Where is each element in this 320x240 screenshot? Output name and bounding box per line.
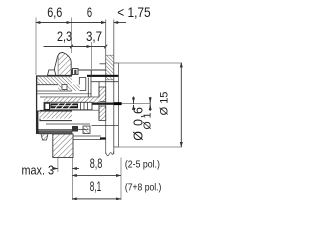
- tick at 105.7: [104, 45, 107, 49]
- ext line x36: [35, 18, 37, 76]
- svg-text:Ø 15: Ø 15: [159, 92, 171, 116]
- ext line x91.5: [91, 42, 93, 69]
- arrow 3,7 right: [85, 46, 92, 48]
- seal black bar: [87, 75, 118, 77]
- cavity top line: [40, 96, 100, 98]
- shell top thick edge: [36, 75, 72, 77]
- svg-text:(2-5 pol.): (2-5 pol.): [125, 160, 160, 171]
- clip blob: [74, 70, 76, 74]
- rear insulator block top: [99, 87, 106, 102]
- front foot: [41, 134, 48, 140]
- panel hatch upper: [106, 55, 114, 74]
- panel right line: [113, 20, 115, 155]
- ext x72.5: [71, 158, 73, 200]
- shell bottom wall bottom edge: [40, 119, 72, 121]
- dim line 1,75 outside arrows: [97, 22, 106, 24]
- centerline: [122, 103, 151, 105]
- dim line dia15: [180, 63, 182, 147]
- front face: [36, 76, 38, 135]
- dim line 2,3 / 3,7: [44, 46, 107, 48]
- solder pin: [92, 103, 122, 105]
- contact rear dividers: [80, 102, 82, 110]
- contact front pocket: [45, 103, 50, 109]
- panel left line: [105, 20, 107, 155]
- panel hatch top edge: [106, 54, 114, 56]
- dia 0,6 dim line: [133, 97, 135, 105]
- tick at 71.5: [70, 45, 73, 49]
- dim line 6,6: [36, 22, 72, 24]
- hump left facet: [54, 57, 59, 75]
- mid hatch band: [72, 85, 80, 91]
- dim line 8,1: [72, 198, 121, 200]
- contact slot black: [51, 103, 79, 108]
- ext line top: [119, 62, 183, 64]
- slot white slashes: [55, 103, 60, 108]
- front rim dark band: [39, 131, 73, 134]
- svg-text:max. 3: max. 3: [22, 163, 55, 178]
- bottom rim lines: [73, 135, 101, 137]
- ext x121: [120, 158, 122, 201]
- inner wall line y91: [37, 90, 73, 92]
- contact slot slit: [52, 104, 78, 107]
- svg-text:6: 6: [87, 5, 92, 20]
- svg-text:6,6: 6,6: [47, 5, 62, 20]
- insulator step: [79, 78, 86, 91]
- svg-text:8,8: 8,8: [90, 156, 103, 171]
- shell behind hump hatch: [58, 85, 72, 91]
- panel hole top edge: [106, 79, 114, 81]
- shell bottom wall thick top edge: [37, 110, 72, 112]
- rear shell top edge: [72, 70, 106, 75]
- front rim lines: [37, 129, 89, 131]
- panel break squiggle: [106, 151, 114, 156]
- flange behind panel: [114, 63, 119, 147]
- bushing top line: [91, 81, 118, 83]
- dim line 6: [72, 22, 106, 24]
- svg-text:(7+8 pol.): (7+8 pol.): [125, 183, 161, 194]
- bayonet cross dark: [72, 126, 78, 132]
- dia 1 dim line: [149, 97, 151, 111]
- shell top wall bottom line: [37, 84, 59, 86]
- bottom lug: [53, 134, 73, 158]
- ext line x71.5: [71, 18, 73, 54]
- ext line bottom: [119, 146, 183, 148]
- rear insulator block bottom: [99, 106, 106, 121]
- shell bottom wall hatch: [40, 112, 73, 119]
- clip on top: [73, 69, 79, 75]
- dim line 8,8: [72, 174, 121, 176]
- bushing bottom line: [92, 125, 119, 127]
- rear verticals: [87, 78, 89, 98]
- flange front step line: [100, 63, 106, 65]
- svg-text:2,3: 2,3: [57, 29, 72, 44]
- contact outline: [44, 102, 92, 110]
- lower right hatch block: [83, 126, 90, 134]
- svg-text:3,7: 3,7: [86, 29, 102, 44]
- lower mid details: [46, 123, 90, 125]
- contact bottom line: [40, 109, 100, 111]
- contact top hatch band: [44, 97, 100, 102]
- white square detail: [62, 85, 67, 90]
- svg-text:< 1,75: < 1,75: [117, 5, 151, 20]
- panel hatch below seal: [106, 77, 114, 80]
- max. 3 dim arrows: [55, 168, 58, 170]
- svg-text:8,1: 8,1: [90, 179, 102, 194]
- top key bump: [48, 70, 56, 75]
- ext x57.9: [57, 158, 59, 172]
- front face lower thick: [36, 111, 38, 135]
- shell top wall hatch: [37, 77, 73, 85]
- svg-text:Ø 1: Ø 1: [141, 112, 153, 129]
- bayonet hump: [53, 52, 71, 75]
- bottom right black blob: [100, 137, 106, 139]
- inner line y93.8: [37, 93, 92, 95]
